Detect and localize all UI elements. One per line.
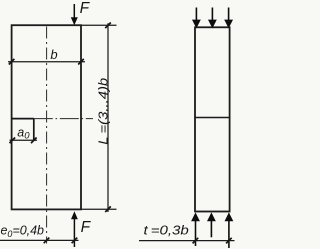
a0 dim tick right — [31, 138, 37, 144]
bottom load arrow 2: shaft — [210, 220, 212, 237]
force F top: shaft — [73, 4, 75, 19]
horizontal centerline (dash-dot) — [34, 118, 93, 120]
top load arrow 2: head — [208, 20, 217, 29]
top load arrow 2: shaft — [211, 8, 213, 21]
L dimension line — [107, 23, 109, 212]
bottom load arrow 3: head — [225, 212, 234, 221]
bottom load arrow 1: head — [191, 212, 200, 221]
force F bottom: arrowhead — [71, 211, 78, 219]
t dimension line — [139, 240, 235, 242]
L dim tick top — [105, 23, 111, 29]
top load arrow 3: shaft — [228, 8, 230, 21]
e0 dimension line — [0, 239, 79, 241]
top load arrow 1: shaft — [195, 8, 197, 21]
e0 dim tick right — [72, 238, 78, 244]
a0 dim tick left — [10, 138, 16, 144]
svg-text:e0=0,4b: e0=0,4b — [1, 223, 45, 239]
svg-text:L =(3...4)b: L =(3...4)b — [96, 78, 110, 145]
e0 dim tick left — [44, 238, 50, 244]
svg-text:F: F — [81, 219, 92, 236]
bottom load arrow 1: shaft — [195, 220, 197, 246]
L dim tick bottom — [105, 206, 111, 212]
svg-text:t =0,3b: t =0,3b — [144, 223, 189, 237]
bottom load arrow 3: shaft — [228, 220, 230, 248]
force F bottom: shaft — [73, 219, 75, 248]
svg-text:F: F — [80, 0, 91, 17]
left specimen outline — [12, 25, 81, 209]
t dim tick right — [226, 238, 232, 244]
a0 dimension line — [10, 139, 38, 141]
top extension line — [81, 24, 117, 26]
t dim tick left — [193, 238, 199, 244]
a0 box right edge — [33, 119, 35, 141]
a0 box top line — [12, 118, 34, 120]
top load arrow 1: head — [192, 20, 201, 29]
b dimension line — [8, 61, 85, 63]
right specimen outline — [195, 27, 230, 211]
vertical centerline (dash-dot) — [46, 27, 48, 244]
bottom load arrow 2: head — [207, 212, 216, 221]
right specimen joint line — [195, 117, 230, 119]
top load arrow 3: head — [224, 20, 233, 29]
b dim tick right — [78, 59, 84, 65]
svg-text:b: b — [50, 47, 57, 62]
b dim tick left — [9, 59, 15, 65]
force F top: arrowhead — [71, 17, 78, 25]
bottom extension line — [81, 208, 117, 210]
